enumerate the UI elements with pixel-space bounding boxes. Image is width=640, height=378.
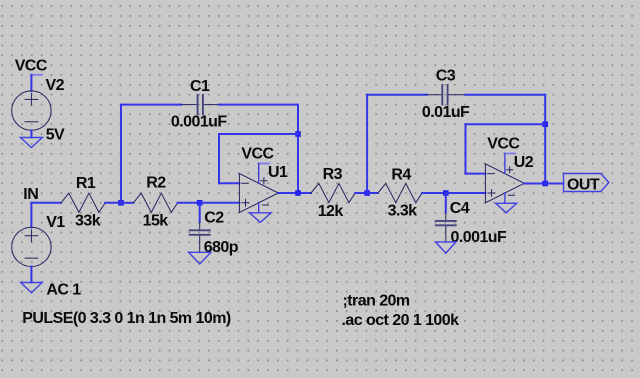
svg-text:R3: R3 bbox=[323, 166, 343, 183]
svg-text:5V: 5V bbox=[46, 126, 65, 143]
wire U2 output bbox=[524, 183, 545, 185]
wire C3 feedback left vertical bbox=[366, 95, 368, 193]
svg-text:R4: R4 bbox=[391, 166, 411, 183]
resistor R4 bbox=[378, 183, 422, 202]
wire C1 top right bbox=[219, 104, 298, 106]
svg-text:12k: 12k bbox=[318, 203, 344, 220]
wire VCC stub to V2 bbox=[30, 75, 32, 91]
wire R3 to node bbox=[355, 192, 367, 194]
wire C3 top right bbox=[466, 94, 546, 96]
node U2 output bbox=[542, 181, 548, 187]
wire node to U2 plus input bbox=[446, 192, 486, 194]
svg-text:0.001uF: 0.001uF bbox=[171, 114, 228, 131]
svg-text:C4: C4 bbox=[450, 200, 470, 217]
pin U1 V+ bbox=[258, 164, 260, 184]
wire R2 to node bbox=[178, 202, 200, 204]
node R4-C4 bbox=[443, 190, 449, 196]
capacitor C3 bbox=[427, 85, 466, 104]
svg-text:V1: V1 bbox=[46, 214, 65, 231]
svg-text:C3: C3 bbox=[436, 68, 456, 85]
op-amp U1 bbox=[239, 174, 278, 213]
svg-text:3.3k: 3.3k bbox=[388, 203, 418, 220]
wire to U1 minus input bbox=[219, 182, 239, 184]
wire V2 to ground bbox=[30, 130, 32, 137]
resistor R3 bbox=[311, 183, 355, 202]
wire node to U1 plus input bbox=[200, 202, 240, 204]
wire V1 to ground bbox=[30, 267, 32, 283]
capacitor C1 bbox=[181, 95, 219, 114]
wire C1 feedback left vertical bbox=[120, 105, 122, 203]
ground (C2) bbox=[189, 252, 211, 264]
wire C3 top left bbox=[367, 94, 427, 96]
node R1-R2 bbox=[118, 200, 124, 206]
wire output to OUT port bbox=[545, 183, 563, 185]
wire C1 top left bbox=[121, 104, 181, 106]
net label VCC (U1) bbox=[241, 146, 274, 164]
wire R4 to node bbox=[422, 192, 446, 194]
net label VCC (V2) bbox=[15, 58, 48, 75]
wire U1 output bbox=[278, 192, 311, 194]
node feedback tap U2 bbox=[542, 121, 548, 127]
wire inner feedback vertical U1 bbox=[218, 134, 220, 183]
wire node to R2 bbox=[121, 202, 133, 204]
wire IN vertical to V1 bbox=[30, 203, 32, 228]
wire node to R4 bbox=[367, 192, 378, 194]
svg-text:0.001uF: 0.001uF bbox=[451, 229, 508, 246]
wire right vertical to output bbox=[297, 105, 299, 193]
svg-text:V2: V2 bbox=[46, 77, 65, 94]
ground (C4) bbox=[436, 242, 456, 253]
svg-text:R1: R1 bbox=[76, 175, 96, 192]
resistor R1 bbox=[61, 193, 105, 212]
wire IN to R1 bbox=[31, 202, 61, 204]
capacitor C2 bbox=[190, 203, 210, 252]
svg-text:C1: C1 bbox=[190, 78, 210, 95]
svg-text:15k: 15k bbox=[143, 213, 169, 230]
capacitor C4 bbox=[436, 193, 456, 242]
port flag OUT bbox=[564, 174, 609, 194]
svg-text:0.01uF: 0.01uF bbox=[422, 104, 470, 121]
svg-text:C2: C2 bbox=[204, 210, 224, 227]
svg-text:VCC: VCC bbox=[241, 146, 274, 163]
svg-text:.ac oct 20 1 100k: .ac oct 20 1 100k bbox=[342, 312, 460, 329]
resistor R2 bbox=[133, 193, 177, 212]
svg-text:OUT: OUT bbox=[567, 176, 600, 193]
node feedback tap U1 bbox=[295, 131, 301, 137]
wire right vertical to output U2 bbox=[544, 95, 546, 184]
wire R1 to node bbox=[105, 202, 121, 204]
ground (V2) bbox=[20, 138, 42, 148]
svg-text:33k: 33k bbox=[75, 213, 101, 230]
svg-text:U2: U2 bbox=[514, 154, 534, 171]
svg-text:AC 1: AC 1 bbox=[46, 282, 81, 299]
svg-text:VCC: VCC bbox=[15, 58, 48, 75]
node U1 output bbox=[295, 190, 301, 196]
wire inner feedback horizontal U1 bbox=[219, 133, 298, 135]
op-amp U2 bbox=[485, 164, 524, 203]
wire inner feedback vertical U2 bbox=[465, 124, 467, 173]
node R3-R4 bbox=[364, 190, 370, 196]
net label VCC (U2) bbox=[487, 135, 520, 153]
voltage source V1 bbox=[12, 227, 51, 266]
pin U1 V- bbox=[258, 202, 260, 212]
svg-text:IN: IN bbox=[23, 186, 38, 203]
svg-text:R2: R2 bbox=[146, 175, 166, 192]
svg-text:U1: U1 bbox=[268, 164, 288, 181]
ground (V1) bbox=[21, 283, 42, 293]
svg-text:VCC: VCC bbox=[487, 135, 520, 152]
ground (U1) bbox=[249, 213, 271, 223]
svg-text:;tran 20m: ;tran 20m bbox=[343, 292, 410, 309]
svg-text:PULSE(0 3.3 0 1n 1n 5m 10m): PULSE(0 3.3 0 1n 1n 5m 10m) bbox=[22, 310, 231, 327]
ground (U2) bbox=[496, 203, 517, 213]
wire to U2 minus input bbox=[466, 173, 486, 175]
pin U2 V- bbox=[504, 193, 506, 203]
node R2-C2 bbox=[197, 200, 203, 206]
pin U2 V+ bbox=[504, 154, 506, 174]
voltage source V2 bbox=[12, 91, 51, 130]
wire inner feedback horizontal U2 bbox=[466, 123, 546, 125]
